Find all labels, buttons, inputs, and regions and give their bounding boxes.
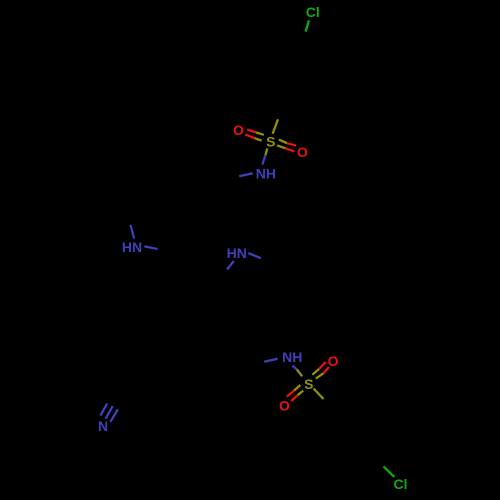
svg-text:O: O [328, 353, 339, 369]
svg-text:HN: HN [227, 245, 247, 261]
svg-text:HN: HN [122, 239, 142, 255]
svg-text:N: N [98, 418, 108, 434]
svg-text:NH: NH [256, 166, 276, 182]
svg-text:S: S [266, 133, 275, 149]
svg-text:O: O [233, 122, 244, 138]
svg-text:Cl: Cl [394, 476, 408, 492]
svg-text:O: O [279, 398, 290, 414]
svg-text:S: S [304, 376, 313, 392]
svg-text:O: O [297, 144, 308, 160]
svg-text:NH: NH [282, 349, 302, 365]
svg-text:Cl: Cl [306, 4, 320, 20]
